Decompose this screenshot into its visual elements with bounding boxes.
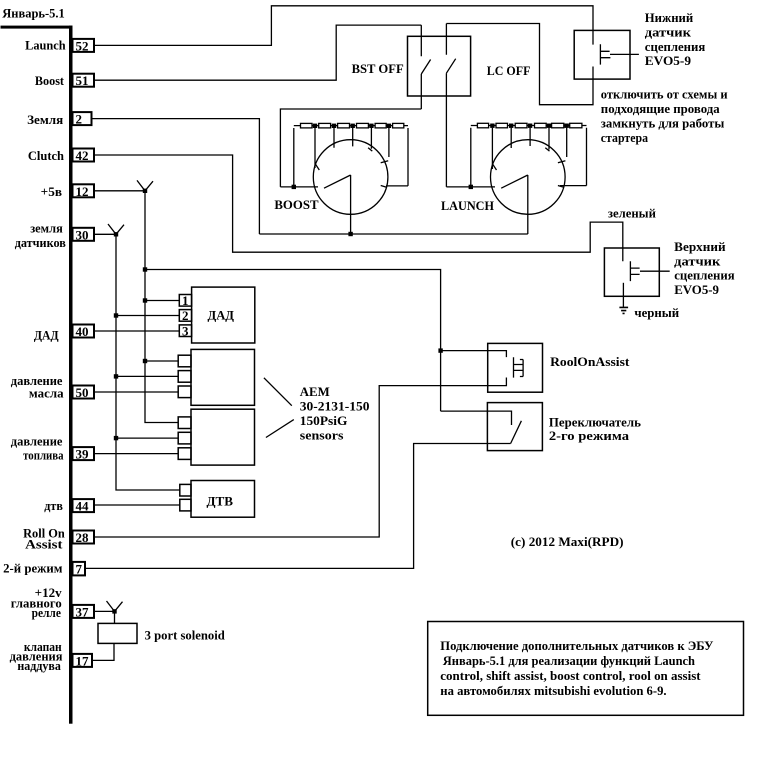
svg-text:LAUNCH: LAUNCH [441,198,494,213]
svg-text:2: 2 [76,112,83,127]
svg-text:control, shift assist, boost c: control, shift assist, boost control, ro… [440,668,701,683]
junction dot LAUNCH left [469,185,473,189]
svg-text:сцепления: сцепления [645,39,706,54]
wire pin44 to ДТВ [95,504,180,506]
note отключить от схемы [601,87,728,145]
svg-text:Подключение дополнительных дат: Подключение дополнительных датчиков к ЭБ… [440,638,714,653]
wire pin2 Земля to ground bus [92,119,260,234]
LAUNCH dial ticks [493,148,566,188]
pin 52 Launch [25,37,94,53]
svg-text:Земля: Земля [27,112,63,127]
svg-text:39: 39 [76,447,90,462]
svg-text:EVO5-9: EVO5-9 [645,53,692,68]
pin 17 клапан давления наддува [10,639,92,673]
RoolOnAssist switch box [488,343,543,392]
wire upper clutch sensor to ground [622,283,624,307]
junction dots +5v rail [143,189,147,364]
svg-text:давление: давление [11,433,63,448]
svg-text:sensors: sensors [300,428,344,443]
wire pin28 to RoolOnAssist [95,378,507,538]
svg-text:замкнуть для работы: замкнуть для работы [601,115,725,130]
MAP sensor ДАД U-DAD [179,287,255,343]
svg-text:Январь-5.1 для реализации функ: Январь-5.1 для реализации функций Launch [443,653,696,668]
svg-text:зеленый: зеленый [608,206,656,221]
svg-text:150PsiG: 150PsiG [300,413,348,428]
wire pin51 to BST OFF switch [95,25,422,80]
svg-text:51: 51 [76,73,89,88]
air temp sensor ДТВ [180,481,255,518]
svg-text:земля: земля [30,220,63,235]
svg-text:(c) 2012 Maxi(RPD): (c) 2012 Maxi(RPD) [511,534,624,549]
svg-text:17: 17 [76,653,90,668]
+5v sensor rail from pin 12 [95,191,180,423]
LAUNCH wiper [501,175,528,234]
resistor bank BOOST [294,123,408,128]
svg-text:отключить от схемы и: отключить от схемы и [601,87,728,102]
svg-text:сцепления: сцепления [674,267,735,282]
svg-text:52: 52 [76,38,89,53]
pin 2 Земля [27,112,91,127]
description text box [428,622,744,716]
label AEM sensors [300,384,370,443]
svg-text:1: 1 [182,293,189,308]
switch BST OFF [352,25,431,109]
svg-text:+5в: +5в [41,184,62,199]
oil pressure sensor box [178,349,254,405]
pin 50 давление масла [11,373,94,400]
svg-text:12: 12 [76,184,89,199]
svg-text:BOOST: BOOST [274,197,318,212]
svg-text:42: 42 [76,148,89,163]
svg-text:44: 44 [76,499,90,514]
svg-text:ДАД: ДАД [34,327,59,342]
svg-text:на автомобилях mitsubishi evol: на автомобилях mitsubishi evolution 6-9. [440,683,666,698]
LAUNCH dial circle [491,140,566,215]
svg-text:AEM: AEM [300,384,330,399]
pin 40 ДАД [34,324,94,342]
BOOST dial ticks [316,148,389,188]
tap wires LAUNCH [492,128,566,169]
svg-text:масла: масла [29,385,64,400]
ground sensor rail from pin 30 [95,234,180,490]
svg-text:Boost: Boost [35,73,65,88]
wire BST OFF to BOOST network [280,109,421,187]
resistor bank LAUNCH [471,123,587,128]
wire pin39 to fuel sensor [95,453,179,455]
ground bus wire under dials [259,233,527,235]
wire solenoid to pin17 [93,643,115,660]
svg-text:топлива: топлива [23,447,64,462]
switch box BST OFF / LC OFF [408,36,471,96]
wire LC OFF to lower clutch sensor [446,24,593,105]
tap wires BOOST [315,128,389,168]
bank side wires LAUNCH [446,128,586,187]
pin 44 дтв [44,498,94,513]
svg-text:3 port solenoid: 3 port solenoid [145,628,226,643]
junction dots on LAUNCH bank [490,124,569,128]
pin 30 земля датчиков [15,220,94,250]
mode switch box 2-го режима [487,403,542,451]
junction dots on BOOST bank [313,124,391,128]
svg-text:дтв: дтв [44,498,63,513]
svg-text:37: 37 [76,604,90,619]
svg-text:подходящие провода: подходящие провода [601,101,720,116]
svg-text:50: 50 [76,385,89,400]
junction dot feed to RoolOnAssist [438,348,442,352]
BOOST wiper [324,175,351,234]
svg-text:3: 3 [182,323,189,338]
svg-text:EVO5-9: EVO5-9 [674,282,719,297]
svg-text:датчиков: датчиков [15,235,66,250]
ground symbol [619,307,628,313]
svg-text:Верхний: Верхний [674,239,726,254]
boost solenoid box [98,623,137,643]
svg-text:2-го режима: 2-го режима [549,428,630,443]
junction dots ground rail [114,232,118,440]
svg-text:Переключатель: Переключатель [549,414,641,429]
switch LC OFF [446,24,530,187]
junction dot BOOST wiper to ground bus [348,232,352,236]
svg-text:стартера: стартера [601,130,649,145]
pin 28 Roll On Assist [23,526,94,552]
antenna mark +5v [137,180,153,190]
wire pin7 to mode switch [85,444,511,569]
wire pin40 to ДАД pin 3 [95,330,180,332]
pin 37 +12v главного релле [11,585,94,620]
svg-text:28: 28 [76,530,90,545]
svg-text:30-2131-150: 30-2131-150 [300,399,370,414]
upper clutch sensor box EVO5-9 [604,248,669,296]
+5v feed wire to switches [145,270,441,412]
svg-text:40: 40 [76,324,89,339]
label Верхний датчик сцепления EVO5-9 [674,239,735,297]
lower clutch sensor box EVO5-9 [574,30,639,79]
wire pin37 to solenoid [95,611,115,623]
svg-text:черный: черный [634,305,679,320]
wire feed to RoolOnAssist [441,351,507,358]
bank side wires BOOST [280,128,408,187]
svg-text:ДАД: ДАД [208,308,235,323]
antenna mark +12v [107,601,123,611]
svg-text:датчик: датчик [674,253,721,268]
pin 7 2-й режим [3,560,85,576]
pointer line to fuel sensor [266,420,294,438]
pin 51 Boost [35,73,94,88]
svg-text:2-й режим: 2-й режим [3,560,63,575]
wire pin52 to lower clutch sensor [95,6,594,46]
svg-text:RoolOnAssist: RoolOnAssist [550,354,630,369]
svg-text:Launch: Launch [25,37,66,52]
junction dot on +5v rail for feed [143,267,147,271]
svg-text:Assist: Assist [25,537,63,552]
pin 12 +5в [41,184,94,199]
fuel pressure sensor box [178,409,254,465]
junction dot +12v [112,609,116,613]
svg-text:Нижний: Нижний [645,10,694,25]
junction dot BOOST left [292,185,296,189]
pin 42 Clutch [28,148,94,163]
svg-text:7: 7 [76,561,83,576]
svg-text:30: 30 [76,227,89,242]
wire feed to mode switch [441,411,512,425]
svg-text:2: 2 [182,308,189,323]
svg-text:LC OFF: LC OFF [487,63,531,78]
svg-text:Январь-5.1: Январь-5.1 [2,6,65,21]
BOOST dial circle [313,140,388,215]
label Нижний датчик сцепления EVO5-9 [645,10,706,68]
svg-text:наддува: наддува [17,658,61,673]
label Переключатель 2-го режима [549,414,641,443]
wire pin50 to oil sensor [95,391,179,393]
ECU connector bus Январь-5.1 [1,6,73,724]
pointer line to oil sensor [264,378,292,406]
svg-text:ДТВ: ДТВ [207,494,234,509]
svg-text:датчик: датчик [645,24,692,39]
pin 39 давление топлива [11,433,94,462]
svg-text:релле: релле [32,605,61,620]
svg-text:BST OFF: BST OFF [352,61,404,76]
wire pin42 Clutch to upper clutch sensor [95,155,623,252]
svg-text:Clutch: Clutch [28,148,65,163]
antenna mark ground rail [108,224,124,234]
